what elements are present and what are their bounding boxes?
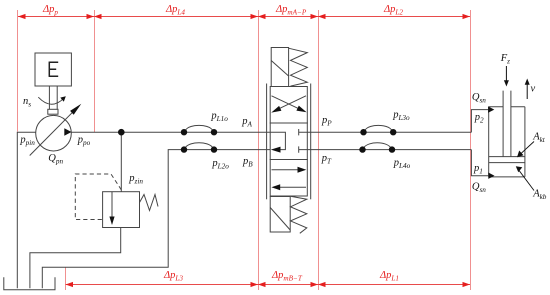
cylinder lower port riser bbox=[471, 150, 488, 176]
proportional valve side rail right bbox=[310, 84, 312, 200]
cylinder bottom edge bbox=[489, 176, 525, 178]
cylinder upper port arrow head bbox=[488, 106, 494, 112]
motor shaft bbox=[48, 86, 50, 109]
parallel position arrow line right bbox=[272, 169, 302, 171]
red measurement tick at x=258 (valve A/B side) bbox=[258, 10, 260, 290]
pressure relief valve body bbox=[103, 192, 140, 228]
rotation direction arc n_s bbox=[38, 97, 64, 104]
shaft coupling flange bbox=[48, 109, 58, 114]
dimension Dp_mB-T line (bottom) bbox=[258, 284, 318, 286]
pressure line P valve to cylinder bbox=[307, 131, 471, 133]
orifice p_L4o arc bbox=[364, 143, 391, 148]
A_kb pointer line bbox=[517, 168, 534, 191]
variable displacement pump bbox=[36, 115, 72, 151]
relief valve branch line bbox=[120, 132, 122, 192]
B return line to tank bbox=[42, 150, 270, 289]
parallel arrow head right bbox=[298, 167, 307, 173]
cylinder top edge with rod gap bbox=[489, 106, 525, 108]
electric motor E box bbox=[35, 53, 71, 86]
dimension Dp_mA-P line bbox=[258, 16, 318, 18]
dimension Dp_L2 line bbox=[318, 16, 470, 18]
return line T valve to cylinder bbox=[307, 149, 471, 151]
tank symbol bbox=[4, 277, 55, 290]
red measurement tick at x=470 (cylinder ports) bbox=[470, 10, 472, 290]
dimension Dp_P line bbox=[18, 16, 94, 18]
dimension Dp_L4 line bbox=[94, 16, 258, 18]
v arrow head bbox=[525, 79, 530, 85]
piston bbox=[489, 157, 525, 163]
top spring bbox=[289, 48, 307, 86]
valve position box bottom (parallel) bbox=[270, 160, 307, 197]
valve position box centre bbox=[270, 123, 307, 160]
top solenoid diagonal bbox=[271, 61, 288, 77]
piston rod bbox=[503, 91, 511, 157]
orifice p_L1o dots bbox=[181, 129, 187, 135]
cylinder right wall bbox=[524, 107, 526, 177]
orifice p_L4o dots bbox=[359, 146, 365, 152]
crossed position diagonal 2 bbox=[274, 96, 306, 111]
orifice p_L2o dots bbox=[181, 146, 187, 152]
pump variable displacement arrow bbox=[30, 111, 74, 156]
cylinder left wall bbox=[488, 107, 490, 177]
proportional valve side rail left bbox=[266, 84, 268, 200]
bottom solenoid box bbox=[270, 197, 290, 233]
bottom spring bbox=[291, 196, 307, 233]
parallel position arrow line left bbox=[276, 186, 306, 188]
red measurement tick at x=318 (valve P/T side) bbox=[318, 10, 320, 290]
dimension Dp_L3 line (bottom) bbox=[66, 284, 259, 286]
centre position A-B path bbox=[270, 132, 285, 149]
dimension Dp_L1 line (bottom) bbox=[318, 284, 470, 286]
orifice p_L1o arc bbox=[186, 125, 213, 130]
pump variable arrow head bbox=[70, 104, 81, 115]
relief valve internal path bbox=[111, 192, 113, 217]
crossed diagonal 1 arrow head bbox=[296, 106, 306, 113]
top solenoid box bbox=[271, 48, 288, 87]
A_kt pointer line bbox=[519, 142, 535, 156]
red measurement tick at x=65.5 (tank return) bbox=[65, 268, 67, 291]
valve position box top (crossed) bbox=[270, 87, 307, 124]
blocked port P symbol bbox=[299, 129, 308, 135]
pump flow direction triangle bbox=[64, 128, 71, 136]
crossed position diagonal 1 bbox=[272, 96, 304, 111]
force F_z arrow line bbox=[505, 66, 507, 82]
svg-text:v: v bbox=[531, 84, 536, 95]
A_kt arrow head bbox=[517, 151, 524, 158]
label E bbox=[49, 62, 59, 76]
orifice p_L2o arc bbox=[186, 143, 213, 148]
orifice p_L3o arc bbox=[365, 125, 392, 130]
velocity v arrow line bbox=[526, 83, 528, 99]
junction node dot bbox=[118, 129, 125, 136]
crossed diagonal 2 arrow head bbox=[271, 106, 281, 113]
bottom solenoid diagonal bbox=[270, 208, 290, 231]
relief valve outlet to tank bbox=[30, 228, 121, 289]
red measurement tick at x=94 (pump outlet) bbox=[94, 10, 96, 133]
red measurement tick at x=18 (pump inlet) bbox=[17, 10, 19, 132]
cylinder upper port riser bbox=[471, 110, 488, 133]
relief valve internal arrow head bbox=[109, 217, 114, 226]
rotation arc arrow head bbox=[60, 96, 66, 102]
blocked port T symbol bbox=[299, 146, 308, 152]
relief valve pilot line (dashed) bbox=[75, 174, 121, 220]
relief valve spring bbox=[140, 195, 159, 211]
suction line to tank bbox=[17, 132, 35, 288]
cylinder lower port arrow head bbox=[488, 173, 494, 179]
main pressure line pump to valve bbox=[71, 131, 270, 133]
orifice p_L3o dots bbox=[360, 129, 366, 135]
parallel arrow head left bbox=[271, 184, 280, 190]
centre position arrow head bbox=[271, 147, 281, 153]
A_kb arrow head bbox=[516, 166, 523, 172]
F_z arrow head bbox=[504, 80, 509, 86]
